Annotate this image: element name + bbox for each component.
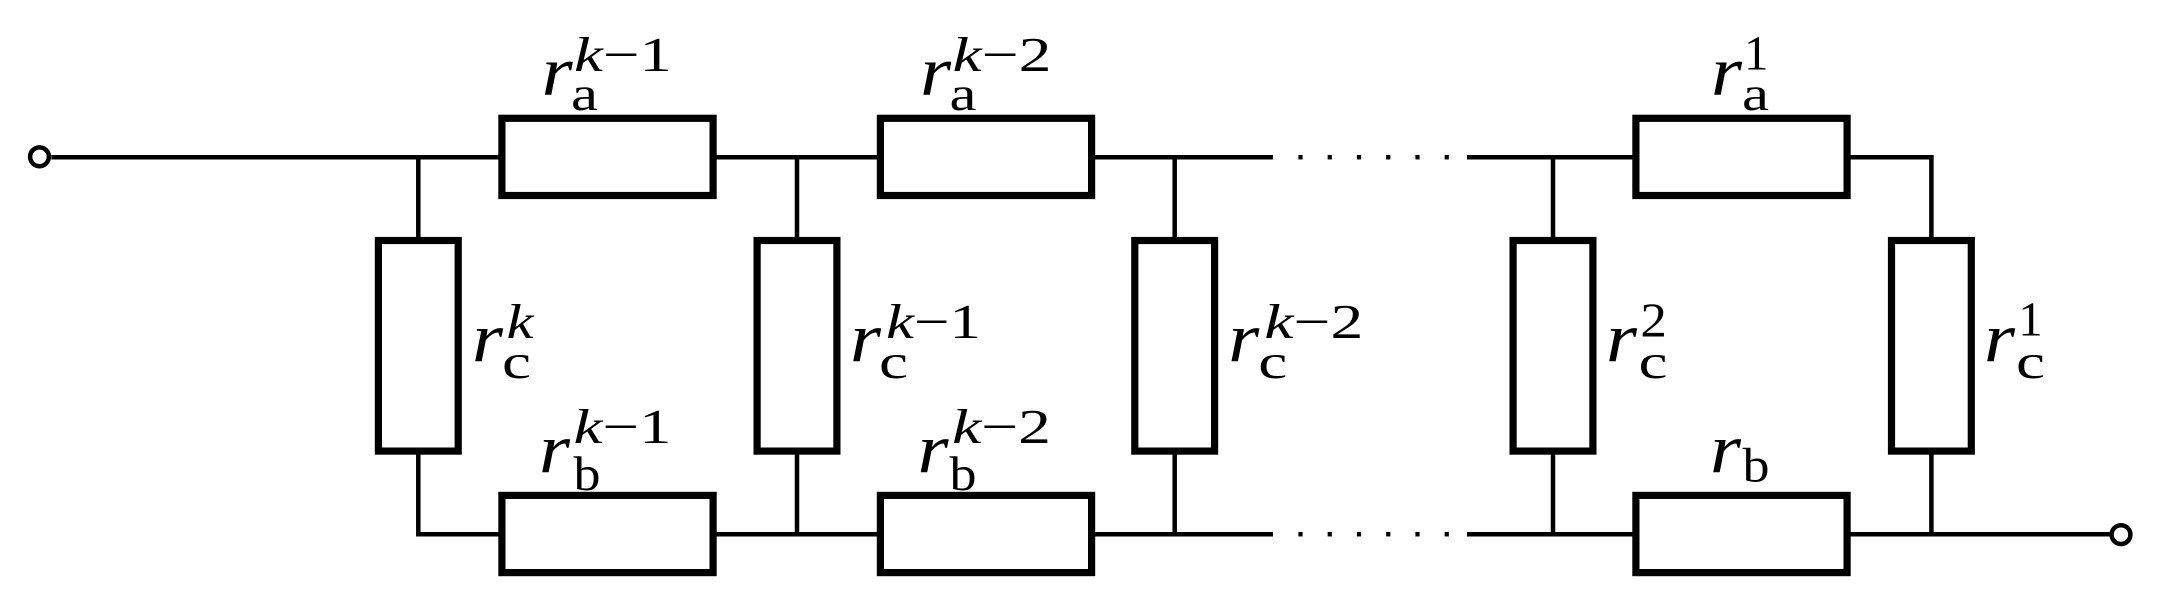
svg-text:r: r	[1606, 300, 1638, 377]
svg-text:b: b	[1743, 438, 1770, 493]
svg-text:r: r	[542, 34, 574, 111]
svg-text:a: a	[950, 66, 977, 121]
svg-text:a: a	[1742, 66, 1769, 121]
svg-text:r: r	[920, 34, 952, 111]
svg-text:c: c	[1258, 334, 1287, 389]
svg-text:c: c	[879, 334, 908, 389]
svg-text:b: b	[950, 446, 977, 501]
svg-text:r: r	[472, 300, 504, 377]
svg-text:c: c	[502, 334, 531, 389]
svg-text:r: r	[1984, 300, 2016, 377]
svg-text:b: b	[574, 446, 601, 501]
svg-text:r: r	[1228, 300, 1260, 377]
svg-text:r: r	[918, 411, 950, 488]
svg-text:a: a	[571, 66, 598, 121]
svg-text:r: r	[1711, 34, 1743, 111]
svg-text:r: r	[539, 411, 571, 488]
svg-text:r: r	[1710, 411, 1742, 488]
svg-text:c: c	[2016, 334, 2045, 389]
svg-text:c: c	[1639, 334, 1668, 389]
svg-text:r: r	[850, 300, 882, 377]
